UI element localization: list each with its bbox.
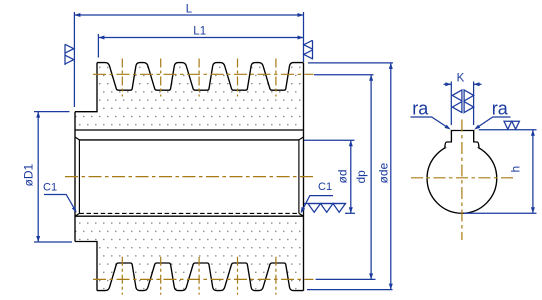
end view bore circle bbox=[427, 144, 497, 214]
left shoulder bottom bbox=[75, 242, 97, 291]
keyway bottom finish symbol bbox=[504, 121, 519, 129]
dimension h bbox=[464, 130, 537, 214]
bore chamfer bottom-left bbox=[75, 213, 79, 216]
svg-text:ra: ra bbox=[412, 99, 429, 119]
dimension dp bbox=[314, 75, 376, 280]
end view horizontal centerline bbox=[411, 177, 515, 179]
dimension od bbox=[304, 140, 355, 213]
bore chamfer edge right bbox=[298, 140, 300, 214]
bore chamfer edge left bbox=[78, 140, 80, 214]
tooth gap centerlines top bbox=[122, 59, 276, 97]
surface finish symbol left face bbox=[65, 44, 74, 65]
label ra right bbox=[474, 99, 510, 130]
bore top line bbox=[79, 139, 299, 141]
svg-text:h: h bbox=[509, 166, 523, 173]
bore bottom hidden line bbox=[79, 212, 299, 214]
right end face bbox=[303, 63, 305, 291]
svg-text:dp: dp bbox=[354, 170, 368, 184]
left shoulder top bbox=[75, 63, 97, 112]
gear body upper half section (stippled) bbox=[75, 63, 304, 130]
bore chamfer top-left bbox=[75, 137, 79, 140]
keyway bottom line bbox=[75, 129, 304, 131]
end view keyway bbox=[445, 131, 479, 149]
dimension L1 bbox=[98, 26, 303, 58]
bore chamfer top-right bbox=[299, 137, 304, 140]
dimension ode bbox=[307, 63, 393, 290]
svg-text:L: L bbox=[186, 4, 193, 16]
pitch line top bbox=[93, 73, 314, 75]
label ra left bbox=[411, 99, 451, 130]
svg-text:L1: L1 bbox=[193, 26, 206, 38]
dimension L bbox=[74, 4, 303, 107]
chamfer label C1 left bbox=[43, 182, 77, 213]
svg-text:ød: ød bbox=[336, 169, 350, 183]
bore chamfer bottom-right bbox=[299, 213, 304, 216]
keyway side finish symbols bbox=[452, 90, 473, 113]
chamfer label C1 right bbox=[301, 181, 333, 213]
end view vertical centerline bbox=[461, 120, 463, 241]
main axis centerline bbox=[65, 176, 314, 178]
svg-text:ra: ra bbox=[492, 99, 509, 119]
pitch line bottom bbox=[93, 278, 314, 280]
tooth profile top bbox=[97, 63, 304, 91]
svg-text:C1: C1 bbox=[318, 181, 332, 193]
gear body lower half section (stippled) bbox=[75, 216, 304, 290]
surface finish symbol right face bbox=[304, 40, 313, 59]
svg-text:øD1: øD1 bbox=[22, 164, 36, 187]
bore bottom outer line bbox=[75, 215, 304, 217]
svg-text:C1: C1 bbox=[43, 182, 57, 194]
tooth profile bottom bbox=[97, 263, 304, 291]
left end face bbox=[74, 112, 76, 242]
dimension K bbox=[444, 73, 482, 126]
tooth gap centerlines bottom bbox=[122, 257, 276, 295]
bore surface finish triangles bbox=[304, 204, 346, 213]
dimension oD1 bbox=[22, 112, 73, 242]
svg-text:K: K bbox=[457, 73, 465, 85]
svg-text:øde: øde bbox=[376, 162, 390, 183]
